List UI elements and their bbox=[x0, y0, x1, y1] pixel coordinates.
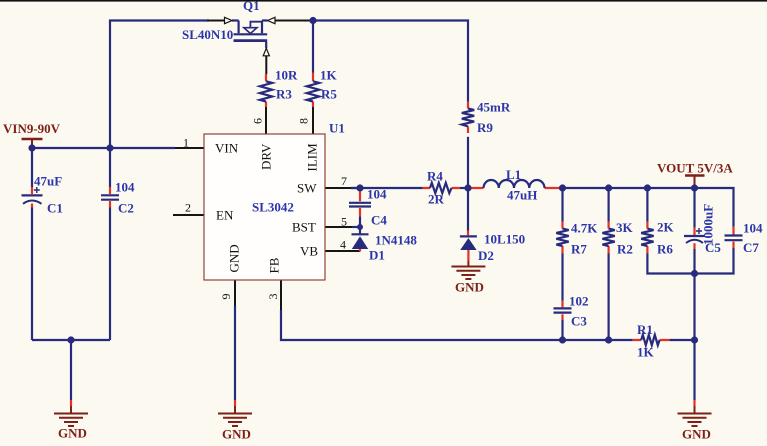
svg-text:GND: GND bbox=[58, 426, 87, 441]
svg-text:GND: GND bbox=[682, 427, 711, 442]
wire C1 stem lower bbox=[31, 208, 33, 341]
wire R2 top stem bbox=[607, 188, 609, 222]
node VOUT at R7 bbox=[559, 184, 566, 191]
node FB at C3 bbox=[559, 336, 566, 343]
svg-text:GND: GND bbox=[227, 244, 242, 272]
svg-text:9: 9 bbox=[219, 294, 233, 300]
wire output rail to C7 corner bbox=[563, 188, 734, 227]
wire C2 stem lower bbox=[109, 208, 111, 341]
wire C5 bottom to rail bbox=[693, 249, 695, 274]
ground mid (pin 9) bbox=[218, 400, 252, 426]
wire BST node to D1 bar bbox=[359, 227, 361, 234]
svg-text:VOUT 5V/3A: VOUT 5V/3A bbox=[657, 161, 733, 176]
svg-text:D2: D2 bbox=[478, 248, 494, 263]
wire C1-C2 bottom join bbox=[32, 339, 110, 341]
svg-text:R7: R7 bbox=[571, 242, 587, 257]
Q1 source pin wire bbox=[207, 20, 225, 22]
svg-text:C3: C3 bbox=[571, 314, 587, 329]
diode D2 bbox=[460, 231, 477, 262]
wire VIN node horizontal bbox=[32, 147, 175, 149]
wire pin 9 to ground bbox=[234, 306, 236, 400]
svg-text:GND: GND bbox=[222, 427, 251, 442]
svg-text:C1: C1 bbox=[47, 201, 63, 216]
svg-text:EN: EN bbox=[216, 208, 234, 223]
node VOUT at R6 bbox=[644, 184, 651, 191]
wire C1 stem upper bbox=[31, 148, 33, 187]
pin 6 wire bbox=[265, 107, 267, 134]
svg-text:C4: C4 bbox=[371, 213, 387, 228]
wire C2 stem upper bbox=[109, 148, 111, 187]
wire R1 right to node bbox=[669, 339, 694, 341]
node VOUT at C5 bbox=[691, 184, 698, 191]
ground at D2 bbox=[451, 261, 485, 279]
svg-text:2K: 2K bbox=[657, 220, 675, 235]
capacitor C1 bbox=[22, 187, 43, 208]
svg-text:3: 3 bbox=[266, 294, 280, 300]
resistor R2 bbox=[602, 222, 614, 254]
svg-text:U1: U1 bbox=[329, 121, 345, 136]
ground right bbox=[678, 400, 712, 426]
svg-text:47uF: 47uF bbox=[34, 174, 62, 189]
svg-text:SL40N10: SL40N10 bbox=[182, 27, 233, 42]
resistor R1 bbox=[633, 335, 670, 345]
wire right ground stem bbox=[693, 340, 695, 400]
node bottom rail at C5 bbox=[691, 270, 698, 277]
node VIN at C1 bbox=[28, 144, 35, 151]
wire R4 right to node bbox=[460, 187, 471, 189]
svg-text:FB: FB bbox=[267, 257, 282, 273]
node FB at R1 bbox=[691, 336, 698, 343]
wire R7 top stem bbox=[561, 188, 563, 222]
resistor R4 bbox=[423, 183, 460, 193]
capacitor C3 bbox=[554, 301, 572, 320]
wire C3 bottom to FB rail bbox=[561, 320, 563, 340]
svg-text:SW: SW bbox=[297, 181, 317, 196]
wire R6 top stem bbox=[646, 188, 648, 222]
svg-text:2: 2 bbox=[185, 201, 191, 215]
node SW at C4 bbox=[356, 184, 363, 191]
wire L1 right to node bbox=[560, 187, 563, 189]
wire R2 bottom to FB rail bbox=[607, 254, 609, 341]
svg-text:4: 4 bbox=[340, 238, 346, 252]
op-amp U1 SL3042 body bbox=[204, 134, 325, 280]
svg-text:1N4148: 1N4148 bbox=[375, 233, 417, 248]
wire top rail right to R9 bbox=[309, 21, 468, 102]
capacitor C7 bbox=[725, 227, 743, 248]
pin 4 wire bbox=[325, 250, 360, 252]
svg-text:BST: BST bbox=[292, 220, 316, 235]
svg-text:8: 8 bbox=[297, 118, 311, 124]
svg-text:104: 104 bbox=[743, 221, 763, 236]
wire SW pin blue stub bbox=[351, 187, 360, 189]
wire R7 bottom to C3 bbox=[561, 254, 563, 301]
diode D1 bbox=[352, 234, 369, 251]
pin 9 wire bbox=[234, 280, 236, 306]
svg-text:VB: VB bbox=[300, 244, 318, 259]
svg-text:Q1: Q1 bbox=[243, 0, 260, 13]
ground left bbox=[54, 400, 88, 426]
svg-text:1: 1 bbox=[183, 136, 189, 150]
wire BST pin blue stub bbox=[352, 226, 360, 228]
svg-text:R6: R6 bbox=[657, 242, 673, 257]
resistor R9 bbox=[462, 102, 474, 134]
svg-text:C5: C5 bbox=[705, 240, 721, 255]
wire C7 bottom and bottom rail to R6 bbox=[647, 248, 733, 274]
power VOUT 5V/3A bbox=[685, 176, 705, 189]
svg-text:45mR: 45mR bbox=[477, 100, 511, 115]
svg-text:6: 6 bbox=[251, 118, 265, 124]
svg-text:L1: L1 bbox=[506, 167, 521, 182]
wire C4 bottom to BST node bbox=[359, 216, 361, 227]
pin 2 wire bbox=[173, 214, 204, 216]
Q1 gate pin wire bbox=[265, 56, 267, 74]
node FB at R2 bbox=[605, 336, 612, 343]
svg-text:R3: R3 bbox=[276, 87, 292, 102]
svg-text:R1: R1 bbox=[637, 322, 653, 337]
node VOUT at R2 bbox=[605, 184, 612, 191]
svg-text:SL3042: SL3042 bbox=[252, 200, 294, 215]
svg-text:R5: R5 bbox=[321, 87, 337, 102]
wire SW node to D2 bbox=[467, 188, 469, 231]
transistor Q1 bbox=[225, 17, 276, 56]
capacitor C2 bbox=[101, 187, 119, 208]
svg-text:10L150: 10L150 bbox=[484, 232, 525, 247]
svg-text:GND: GND bbox=[455, 280, 484, 295]
pin 7 wire bbox=[325, 187, 351, 189]
svg-text:104: 104 bbox=[115, 180, 135, 195]
svg-text:10R: 10R bbox=[275, 68, 298, 83]
svg-text:47uH: 47uH bbox=[507, 188, 537, 203]
svg-text:D1: D1 bbox=[369, 248, 385, 263]
pin 1 wire bbox=[175, 147, 204, 149]
wire R5 top from rail bbox=[312, 21, 314, 73]
node top rail at R5 bbox=[309, 17, 316, 24]
wire R9 bottom to SW node bbox=[467, 137, 469, 188]
pin 5 wire bbox=[325, 226, 352, 228]
svg-text:5: 5 bbox=[341, 215, 347, 229]
svg-text:102: 102 bbox=[569, 294, 589, 309]
svg-text:R2: R2 bbox=[617, 242, 633, 257]
inductor L1 bbox=[471, 180, 560, 188]
svg-text:VIN: VIN bbox=[215, 141, 239, 156]
svg-text:1K: 1K bbox=[637, 345, 655, 360]
svg-text:C7: C7 bbox=[743, 240, 759, 255]
resistor R5 bbox=[307, 73, 319, 108]
svg-text:1K: 1K bbox=[320, 68, 338, 83]
wire top rail left + left vertical rail bbox=[110, 21, 209, 149]
wire mid-left ground stem bbox=[70, 340, 72, 400]
svg-text:R9: R9 bbox=[477, 120, 493, 135]
svg-text:DRV: DRV bbox=[259, 143, 274, 170]
node BST at C4/D1 bbox=[357, 224, 363, 230]
pin 8 wire bbox=[312, 107, 314, 134]
svg-text:104: 104 bbox=[367, 187, 387, 202]
svg-text:C2: C2 bbox=[118, 201, 134, 216]
resistor R6 bbox=[641, 222, 653, 254]
svg-text:4.7K: 4.7K bbox=[571, 221, 598, 236]
svg-text:3K: 3K bbox=[616, 220, 634, 235]
resistor R3 bbox=[260, 74, 272, 107]
wire FB rail bbox=[281, 310, 633, 340]
wire SW pin to R4 bbox=[351, 187, 423, 189]
Q1 drain pin wire bbox=[275, 20, 309, 22]
pin 3 wire bbox=[280, 280, 282, 310]
resistor R7 bbox=[556, 222, 568, 254]
svg-text:1000uF: 1000uF bbox=[701, 204, 716, 245]
node C1/C2 ground join bbox=[67, 336, 74, 343]
node SW at R9/D2 bbox=[464, 184, 471, 191]
svg-text:VIN9-90V: VIN9-90V bbox=[3, 121, 61, 136]
svg-text:2R: 2R bbox=[428, 192, 445, 207]
capacitor C5 bbox=[684, 228, 705, 249]
wire C5 stem top bbox=[693, 188, 695, 228]
top window border bbox=[0, 0, 767, 2]
power VIN9-90V bbox=[22, 139, 43, 148]
node VIN at C2 bbox=[106, 144, 113, 151]
svg-text:R4: R4 bbox=[427, 169, 443, 184]
svg-text:ILIM: ILIM bbox=[305, 143, 320, 172]
capacitor C4 bbox=[349, 192, 371, 217]
svg-text:7: 7 bbox=[341, 174, 347, 188]
wire C5 node down to FB rail bbox=[693, 274, 695, 341]
